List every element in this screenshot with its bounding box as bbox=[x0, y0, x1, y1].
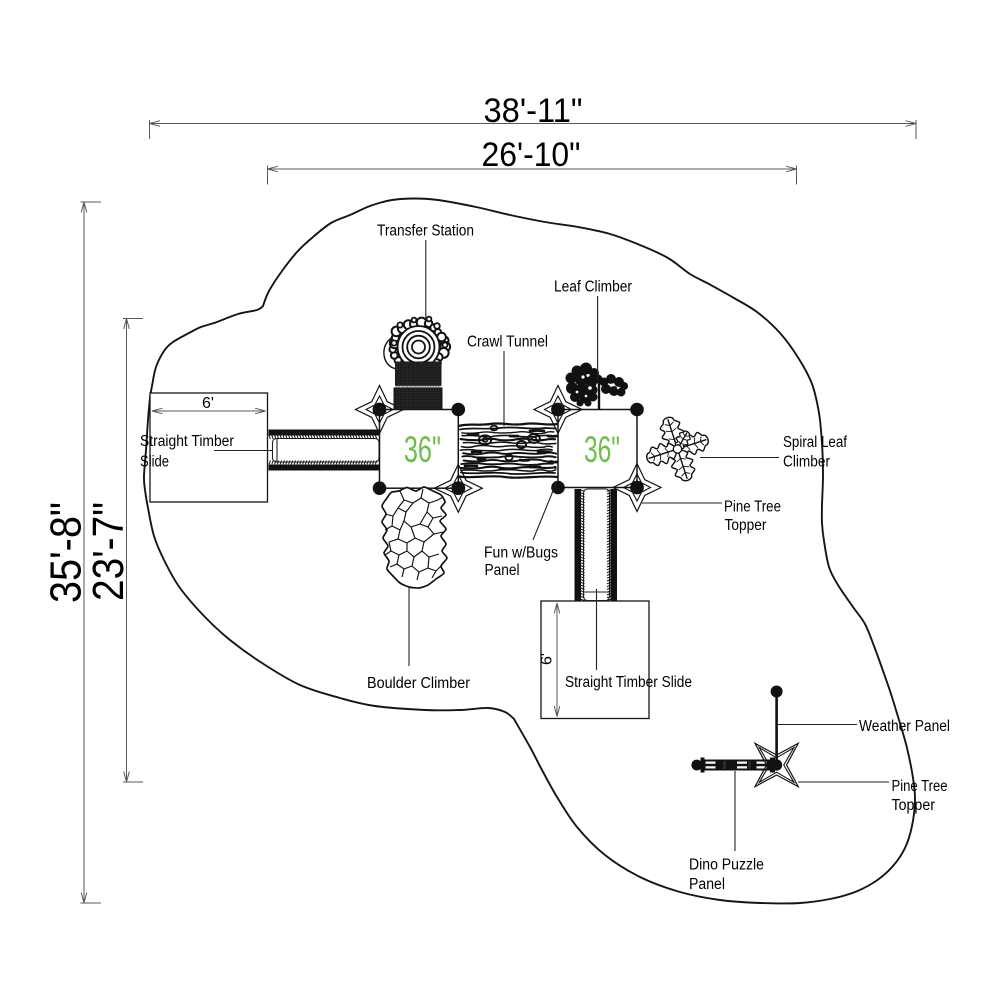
svg-text:Slide: Slide bbox=[140, 454, 169, 471]
svg-text:36": 36" bbox=[404, 429, 441, 470]
svg-text:Straight Timber Slide: Straight Timber Slide bbox=[565, 674, 692, 691]
svg-text:Spiral Leaf: Spiral Leaf bbox=[783, 434, 848, 451]
svg-text:36": 36" bbox=[584, 429, 620, 470]
svg-text:35'-8": 35'-8" bbox=[41, 502, 90, 603]
svg-text:38'-11": 38'-11" bbox=[484, 92, 583, 130]
svg-text:Pine Tree: Pine Tree bbox=[724, 499, 781, 516]
svg-text:6': 6' bbox=[202, 395, 214, 412]
svg-text:Pine Tree: Pine Tree bbox=[892, 778, 948, 795]
svg-text:Dino Puzzle: Dino Puzzle bbox=[689, 857, 764, 874]
svg-text:Topper: Topper bbox=[892, 797, 936, 814]
svg-text:Climber: Climber bbox=[783, 454, 830, 471]
svg-text:6': 6' bbox=[539, 653, 556, 665]
svg-text:23'-7": 23'-7" bbox=[84, 502, 133, 601]
svg-text:Crawl Tunnel: Crawl Tunnel bbox=[467, 334, 548, 351]
svg-text:Transfer Station: Transfer Station bbox=[377, 223, 474, 240]
svg-text:Panel: Panel bbox=[689, 876, 725, 893]
svg-text:Weather Panel: Weather Panel bbox=[859, 718, 950, 735]
svg-text:Fun w/Bugs: Fun w/Bugs bbox=[484, 545, 558, 562]
svg-text:Leaf Climber: Leaf Climber bbox=[554, 279, 632, 296]
svg-text:Panel: Panel bbox=[485, 562, 520, 579]
svg-text:Boulder Climber: Boulder Climber bbox=[367, 675, 470, 692]
svg-text:26'-10": 26'-10" bbox=[482, 136, 581, 174]
svg-text:Topper: Topper bbox=[725, 517, 767, 534]
svg-text:Straight Timber: Straight Timber bbox=[140, 433, 234, 450]
